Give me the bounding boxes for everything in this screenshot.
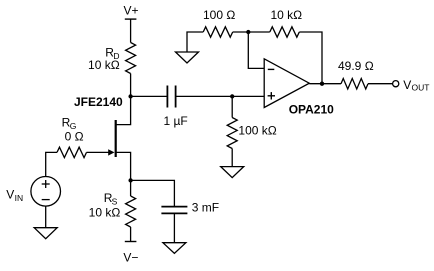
- ground under C2: [163, 243, 186, 254]
- wire R2 to output: [299, 32, 322, 84]
- Q1 gate arrow: [108, 149, 114, 155]
- JFET Q1 channel bar: [115, 120, 117, 157]
- capacitor C1 1uF: [167, 86, 175, 108]
- wire R4 to VOUT terminal: [368, 83, 393, 85]
- Q1 drain lead: [116, 96, 131, 124]
- node source junction dot: [128, 178, 132, 182]
- U1 minus sign: [268, 68, 275, 70]
- wire RS to V- tap: [130, 227, 132, 242]
- wire C2 to ground: [173, 213, 175, 242]
- VOUT terminal circle: [393, 81, 399, 87]
- wire R1 to feedback node: [233, 31, 270, 33]
- svg-text:V: V: [403, 78, 411, 92]
- Q1 source lead: [116, 152, 131, 180]
- resistor R3 100k: [227, 118, 237, 149]
- wire RG to VIN: [46, 152, 57, 176]
- ground under VIN: [34, 228, 57, 239]
- svg-text:100 kΩ: 100 kΩ: [238, 124, 276, 138]
- wire VIN to ground: [45, 206, 47, 228]
- resistor R2 10k: [270, 27, 300, 37]
- op-amp U1: [264, 59, 309, 108]
- resistor R4 49.9: [341, 79, 368, 90]
- VIN plus sign: [42, 180, 50, 188]
- V+ supply tap: [125, 18, 137, 20]
- U1 plus sign: [268, 92, 275, 99]
- wire node to R3: [231, 96, 233, 117]
- wire drain node to C1: [131, 95, 168, 97]
- svg-text:1 µF: 1 µF: [164, 114, 188, 128]
- node feedback junction dot: [246, 30, 250, 34]
- svg-text:100 Ω: 100 Ω: [203, 8, 235, 22]
- wire RD to drain node: [130, 74, 132, 97]
- svg-text:3 mF: 3 mF: [192, 200, 219, 214]
- resistor RG: [57, 147, 87, 157]
- V- supply tap: [125, 241, 137, 243]
- wire V+ to RD: [130, 19, 132, 42]
- VIN minus sign: [42, 199, 50, 201]
- capacitor C2 3mF: [161, 207, 187, 214]
- svg-text:10 kΩ: 10 kΩ: [271, 8, 303, 22]
- svg-text:V+: V+: [123, 4, 138, 18]
- node drain junction dot: [128, 94, 132, 98]
- svg-text:OPA210: OPA210: [289, 103, 334, 117]
- node noninverting junction dot: [230, 94, 234, 98]
- resistor R1 100: [203, 27, 233, 37]
- wire op-amp output: [309, 83, 341, 85]
- RS label: [89, 191, 121, 220]
- svg-text:JFE2140: JFE2140: [74, 95, 123, 109]
- resistor RD: [126, 43, 136, 74]
- svg-text:10 kΩ: 10 kΩ: [89, 206, 121, 220]
- svg-text:10 kΩ: 10 kΩ: [88, 58, 120, 72]
- wire top-left ground to R1: [187, 32, 203, 52]
- wire C1 to op-amp + input: [176, 95, 265, 97]
- wire feedback node to inverting input: [248, 32, 264, 68]
- wire source node to RS: [130, 180, 132, 196]
- wire R3 to ground: [231, 149, 233, 167]
- svg-text:0 Ω: 0 Ω: [65, 129, 84, 143]
- wire source node to C2: [131, 180, 175, 206]
- VIN label: [6, 187, 23, 203]
- RG label: [62, 116, 84, 144]
- resistor RS: [126, 196, 136, 227]
- svg-text:OUT: OUT: [412, 82, 430, 92]
- ground under R3: [221, 167, 244, 178]
- svg-text:V: V: [6, 187, 14, 201]
- source VIN: [31, 177, 61, 207]
- svg-text:V−: V−: [123, 250, 138, 264]
- svg-text:49.9 Ω: 49.9 Ω: [338, 59, 374, 73]
- node output junction dot: [320, 82, 324, 86]
- RD label: [88, 45, 120, 72]
- svg-text:IN: IN: [15, 193, 24, 203]
- VOUT label: [403, 78, 429, 92]
- wire RG to gate: [87, 151, 109, 153]
- ground top-left: [176, 52, 199, 63]
